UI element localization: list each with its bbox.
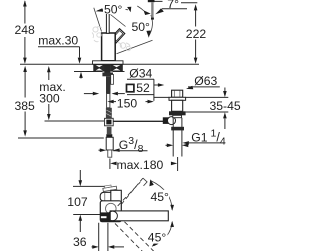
supply rod dark [106,76,111,93]
drain tailpipe [173,118,182,157]
label connector vertical [153,79,155,101]
dimension 248 vertical line [23,0,27,64]
spout outlet aerator [148,0,155,20]
svg-text:max.180: max.180 [117,158,164,172]
basin bottom line [186,111,229,113]
max.30 label line and arrows [38,47,83,79]
tailpipe nut [171,127,184,131]
drain plug head [172,90,183,97]
dimension max.300 vertical line [47,66,51,120]
svg-text:50°: 50° [132,20,151,34]
Ø34 dimension arrows [84,92,125,96]
deck washer right [111,65,123,71]
lever back axis line [94,8,102,32]
lever open position tilted [111,29,125,43]
text 50deg first backing [103,3,126,14]
drain lower neck [173,115,182,117]
107 upper arrow [79,170,83,186]
drain body [172,100,183,111]
base plate escutcheon [93,61,124,64]
upper 45 arc [149,179,174,211]
107 lower arrow [79,215,83,232]
dimension max.180 [110,157,178,171]
svg-text:Ø34: Ø34 [129,67,152,81]
svg-text:385: 385 [15,99,36,113]
label leader arrow right [154,83,164,87]
pop-up rod upper [111,75,114,85]
lower rod hatched [107,127,112,134]
svg-text:150: 150 [117,97,138,111]
svg-text:45°: 45° [151,190,170,204]
basin top line [154,96,228,98]
faucet body [102,33,116,61]
drain lever ball joint [168,117,176,125]
dimension 150 [107,100,154,104]
107 lower extension line [73,214,100,216]
stem top cap [107,11,110,13]
countertop top line [20,63,199,65]
lower 45 arc [152,221,174,247]
top view body square [100,201,121,222]
top view lever [100,192,114,201]
svg-text:222: 222 [186,27,207,41]
threaded shank [104,64,110,72]
svg-text:248: 248 [15,23,36,37]
G1 1/4 dimension arrows [166,144,189,148]
dimension 385 vertical line [23,66,27,137]
connector tail [108,150,112,157]
text square52 [127,84,134,91]
countertop bottom line [74,71,125,73]
Ø63 underline leader [186,86,220,90]
222 top extension line [155,1,198,2]
svg-text:max.30: max.30 [38,34,78,48]
svg-text:52: 52 [136,81,150,95]
top view spout mount dark [100,212,110,222]
G3/8 connector tube [106,137,113,150]
svg-text:Ø63: Ø63 [194,74,217,88]
rod junction clamp [105,118,114,126]
decorative gray doodle left [92,27,102,42]
svg-text:7°: 7° [167,0,179,11]
top view cartridge circle [106,203,117,214]
385 bottom reference line [18,137,104,139]
svg-text:107: 107 [67,195,88,209]
7deg leader arrow [155,8,187,14]
decorative gray doodle right [118,43,131,51]
Ø34 underline [127,78,154,80]
36 dimension line [92,245,125,249]
pop-up horizontal linkage rod [113,120,163,122]
white backing for lower 45 text [147,230,168,244]
mounting nut [102,73,113,77]
arc 50 deg second [146,15,152,38]
max.300 bottom reference line [45,120,105,122]
arc 50 deg first [96,7,132,13]
G3/8 dimension arrows and label leader [99,148,148,152]
white backing for upper 45 text [150,190,170,204]
svg-text:35-45: 35-45 [210,99,241,113]
drain flange [169,97,186,100]
svg-text:36: 36 [73,235,87,249]
upper dashed swivel band [118,178,143,206]
lower dashed swivel band [115,222,154,251]
upper band end cap [143,178,147,186]
rod thin middle [107,94,110,108]
lower rod black cap [106,134,112,137]
top view: 107 upper extension line [73,185,110,187]
G1 1/4 underline leader [183,141,226,145]
top view lever base [111,190,122,202]
top view swivel joint circle [108,211,118,221]
35-45 upper arrow [223,88,227,98]
drain seal collar [169,111,186,115]
35-45 lower arrow [223,112,227,129]
svg-text:50°: 50° [104,3,123,17]
spout axis line [117,40,153,54]
rod adjuster hatched [106,108,112,119]
leader arc to aerator [137,6,150,15]
linkage end block [163,117,169,124]
dimension 222 vertical line [194,4,198,64]
top view lever tip [103,184,117,191]
deck washer left [94,65,105,71]
svg-text:45°: 45° [148,231,167,245]
36 extension lines [99,223,108,251]
lever stem closed position [106,12,109,34]
top view spout band [110,211,168,221]
lever forward axis line [111,15,126,27]
svg-text:300: 300 [39,92,60,106]
square52 underline [127,94,154,96]
